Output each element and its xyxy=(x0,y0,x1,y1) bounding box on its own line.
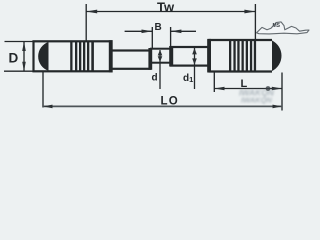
L dimension line xyxy=(214,88,282,90)
L arrow right xyxy=(272,87,282,91)
Tw extension line left xyxy=(85,4,87,41)
D arrow bottom xyxy=(22,62,26,71)
svg-text:MS: MS xyxy=(273,23,281,29)
B dimension line with tails xyxy=(125,30,153,32)
right grip rounded end crescent xyxy=(272,41,281,72)
B extension line left xyxy=(151,27,153,49)
left grip knurl bars xyxy=(70,41,72,71)
right grip body xyxy=(209,40,273,72)
svg-text:d1: d1 xyxy=(183,73,193,84)
D dimension line xyxy=(23,42,25,72)
B arrow right xyxy=(171,30,182,34)
D arrow top xyxy=(22,42,26,52)
svg-text:Tw: Tw xyxy=(157,0,175,14)
svg-text:B: B xyxy=(155,22,162,33)
d arrow down xyxy=(158,56,163,62)
Tw arrow left xyxy=(86,10,97,14)
L arrow left xyxy=(214,87,224,91)
Tw dimension line xyxy=(86,11,255,13)
neck gauge section (d) xyxy=(151,49,171,63)
L extension line left xyxy=(213,73,215,93)
right grip knurl bars xyxy=(229,40,231,72)
D extension line bottom xyxy=(4,70,44,72)
B arrow left xyxy=(142,30,153,34)
step face neck to shoulder xyxy=(169,46,173,67)
watermark blurry text xyxy=(239,88,275,105)
LO extension line left xyxy=(42,72,44,108)
D extension line top xyxy=(5,41,46,43)
step face shaft to neck xyxy=(148,48,152,70)
svg-text:d: d xyxy=(152,73,158,84)
left grip rounded end crescent xyxy=(38,42,48,71)
logo squiggle top right xyxy=(257,22,310,34)
watermark dot on L line xyxy=(266,86,271,91)
svg-text:LO: LO xyxy=(161,96,179,108)
svg-text:IWAKQN: IWAKQN xyxy=(241,96,272,105)
d leader line xyxy=(159,50,161,89)
d1 arrow down xyxy=(192,58,197,64)
Tw extension line right xyxy=(254,4,256,40)
d1 arrow up xyxy=(192,48,197,54)
left grip body xyxy=(34,41,112,71)
B extension line right xyxy=(170,27,172,49)
LO dimension line xyxy=(43,105,282,107)
shaft section left (d1) xyxy=(111,51,150,69)
d arrow up xyxy=(158,50,163,56)
shoulder section right (d1) xyxy=(171,47,209,66)
svg-text:D: D xyxy=(9,50,19,65)
right grip left step face xyxy=(207,39,211,73)
right extension line for L and LO xyxy=(281,73,283,111)
left grip step face xyxy=(109,40,113,72)
LO arrow left xyxy=(43,105,53,109)
Tw arrow right xyxy=(244,10,255,14)
d1 leader line xyxy=(194,48,196,89)
LO arrow right xyxy=(273,105,283,109)
